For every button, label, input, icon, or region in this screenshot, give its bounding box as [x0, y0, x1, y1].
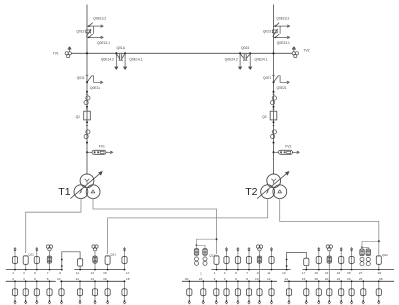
svg-text:16: 16 — [103, 277, 107, 281]
svg-text:Q013: Q013 — [76, 30, 84, 34]
svg-text:Q0E14.2: Q0E14.2 — [101, 58, 114, 62]
svg-text:Q0E14.1: Q0E14.1 — [129, 58, 142, 62]
svg-text:Q0E13.2: Q0E13.2 — [93, 17, 106, 21]
svg-text:11: 11 — [267, 271, 270, 275]
svg-text:Q023: Q023 — [263, 30, 271, 34]
svg-text:7: 7 — [47, 271, 49, 275]
svg-text:TV2: TV2 — [304, 48, 310, 52]
svg-text:20: 20 — [185, 277, 189, 281]
svg-text:24: 24 — [347, 277, 351, 281]
svg-text:9: 9 — [59, 271, 61, 275]
svg-text:Q021: Q021 — [263, 76, 271, 80]
svg-text:Q12: Q12 — [209, 253, 215, 257]
svg-text:Q21: Q21 — [110, 253, 116, 257]
svg-text:16: 16 — [302, 277, 306, 281]
svg-text:13: 13 — [91, 271, 95, 275]
svg-text:18: 18 — [314, 277, 318, 281]
svg-text:26: 26 — [359, 277, 363, 281]
svg-text:Q024: Q024 — [241, 46, 249, 50]
svg-text:Q22: Q22 — [382, 253, 388, 257]
svg-text:Q0E24.1: Q0E24.1 — [255, 58, 268, 62]
svg-text:22: 22 — [199, 277, 203, 281]
svg-text:21: 21 — [325, 271, 329, 275]
svg-text:2: 2 — [12, 277, 14, 281]
svg-text:17: 17 — [302, 271, 306, 275]
svg-text:23: 23 — [337, 271, 341, 275]
svg-text:18: 18 — [126, 277, 130, 281]
svg-text:13: 13 — [282, 271, 286, 275]
svg-text:Q0E24.2: Q0E24.2 — [225, 58, 238, 62]
svg-text:11: 11 — [76, 271, 79, 275]
svg-text:12: 12 — [267, 277, 271, 281]
svg-text:29: 29 — [378, 271, 382, 275]
svg-text:14: 14 — [285, 277, 289, 281]
svg-text:TV1: TV1 — [53, 52, 59, 56]
svg-text:T2: T2 — [245, 186, 257, 198]
svg-text:Q011: Q011 — [77, 76, 85, 80]
svg-text:19: 19 — [314, 271, 318, 275]
svg-text:Q0E23.2: Q0E23.2 — [276, 17, 289, 21]
svg-text:6: 6 — [235, 277, 237, 281]
svg-text:Q0E13.1: Q0E13.1 — [97, 41, 110, 45]
svg-text:8: 8 — [246, 277, 248, 281]
svg-text:Q0E23.1: Q0E23.1 — [277, 41, 290, 45]
svg-text:Q1: Q1 — [76, 115, 81, 119]
svg-text:4: 4 — [224, 277, 226, 281]
svg-text:FV2: FV2 — [285, 145, 291, 149]
svg-text:15: 15 — [103, 271, 107, 275]
svg-text:12: 12 — [76, 277, 80, 281]
svg-text:9: 9 — [257, 271, 259, 275]
svg-text:20: 20 — [325, 277, 329, 281]
svg-text:Q2: Q2 — [262, 115, 267, 119]
svg-text:5: 5 — [235, 271, 237, 275]
svg-text:Q11: Q11 — [28, 253, 34, 257]
svg-text:3: 3 — [224, 271, 226, 275]
svg-text:Q0E11: Q0E11 — [90, 86, 100, 90]
svg-text:7: 7 — [246, 271, 248, 275]
svg-text:8: 8 — [47, 277, 49, 281]
svg-text:17: 17 — [126, 271, 130, 275]
svg-text:FV1: FV1 — [99, 145, 105, 149]
svg-text:14: 14 — [91, 277, 95, 281]
svg-text:3: 3 — [23, 271, 25, 275]
svg-text:6: 6 — [34, 277, 36, 281]
svg-text:2: 2 — [214, 277, 216, 281]
svg-text:Q01A: Q01A — [116, 46, 125, 50]
svg-text:22: 22 — [337, 277, 341, 281]
svg-text:Q0E21: Q0E21 — [277, 86, 287, 90]
svg-text:5: 5 — [34, 271, 36, 275]
svg-text:4: 4 — [23, 277, 25, 281]
svg-text:25: 25 — [347, 271, 351, 275]
svg-text:1: 1 — [214, 271, 216, 275]
svg-text:10: 10 — [255, 277, 259, 281]
svg-text:27: 27 — [359, 271, 363, 275]
svg-text:28: 28 — [379, 277, 383, 281]
svg-text:1: 1 — [12, 271, 14, 275]
svg-text:10: 10 — [57, 277, 61, 281]
svg-text:T1: T1 — [58, 186, 70, 198]
